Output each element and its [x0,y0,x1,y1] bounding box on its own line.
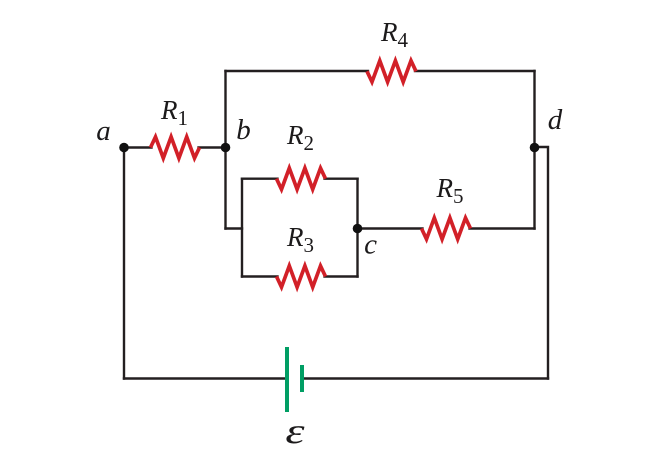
resistor R3 [277,266,326,287]
svg-text:R3: R3 [286,222,314,257]
wire parallel box right edge [356,179,358,277]
svg-text:R5: R5 [436,173,464,208]
resistor R4 [367,61,416,82]
node a [119,143,129,153]
wire d jog right and down right rail to bottom [535,147,549,379]
resistor R5 [422,218,471,239]
svg-text:a: a [96,115,111,147]
svg-text:b: b [236,114,251,146]
wire node c to R5 [358,227,423,229]
resistor R1 [151,137,200,158]
svg-text:c: c [364,229,377,261]
wire b jog to parallel box [226,227,243,229]
wire bottom rail left (to battery) [124,377,287,379]
wire left rail (a down to bottom) [123,148,125,379]
battery long plate [285,347,289,412]
wire R1 to node b [199,146,226,148]
wire vertical through node b (top rail corner down to parallel-box jog) [224,71,226,229]
svg-text:R1: R1 [160,95,188,130]
wire bottom rail right (battery to right rail) [302,377,548,379]
battery short plate [300,365,304,392]
wire top branch left (box to R2) [242,177,278,179]
wire bottom branch right (R3 to box) [325,275,358,277]
wire top rail left (b corner to R4) [226,70,369,72]
wire top rail right (R4 to d corner) [415,70,535,72]
node c [353,224,363,234]
svg-text:R4: R4 [380,17,409,52]
node b [221,143,231,153]
wire top branch right (R2 to box) [325,177,358,179]
wire a to R1 [124,146,152,148]
svg-text:d: d [548,104,563,136]
wire vertical through node d (top rail corner down to R5 wire) [533,71,535,229]
svg-text:ε: ε [285,412,304,452]
wire R5 to right vertical [470,227,535,229]
wire bottom branch left (box to R3) [242,275,278,277]
wire parallel box left edge [241,179,243,277]
svg-text:R2: R2 [286,120,314,155]
node d [530,143,540,153]
resistor R2 [277,168,326,189]
